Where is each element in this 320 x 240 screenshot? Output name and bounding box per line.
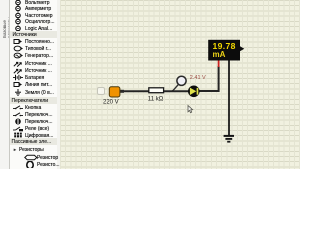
svg-text:11 kΩ: 11 kΩ	[148, 96, 164, 102]
svg-text:220 V: 220 V	[103, 99, 119, 105]
svg-text:2.41 V: 2.41 V	[190, 75, 206, 81]
svg-text:mA: mA	[213, 50, 226, 59]
